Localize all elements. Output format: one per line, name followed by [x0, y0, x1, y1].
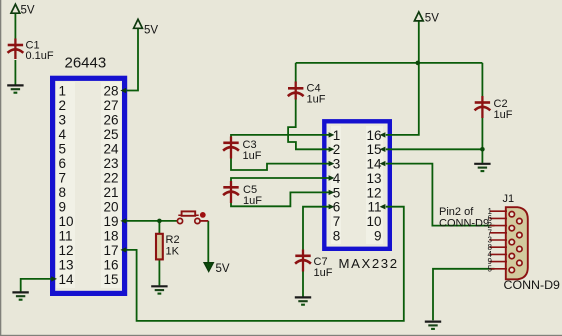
- svg-text:5V: 5V: [21, 4, 35, 16]
- capacitor C3: [223, 137, 239, 159]
- pin arrow U1 pin19: [120, 218, 126, 223]
- svg-text:3: 3: [333, 157, 341, 172]
- svg-text:8: 8: [333, 228, 341, 243]
- pin arrow U2 pin14: [380, 161, 386, 166]
- svg-text:5V: 5V: [144, 24, 158, 36]
- wire 5V rail: [296, 62, 483, 64]
- wire C7 to ground: [302, 271, 304, 297]
- svg-text:4: 4: [59, 127, 67, 142]
- svg-text:2: 2: [59, 98, 67, 113]
- svg-text:14: 14: [59, 272, 75, 287]
- svg-text:17: 17: [103, 243, 118, 258]
- ground under C7: [295, 297, 311, 304]
- svg-text:12: 12: [59, 243, 74, 258]
- U2 pin numbers left: [333, 128, 341, 244]
- power 5V down arrow: [204, 263, 213, 272]
- node junction rail 5V: [416, 61, 421, 66]
- svg-text:26: 26: [103, 112, 118, 127]
- capacitor C5: [223, 181, 239, 203]
- svg-text:1uF: 1uF: [494, 109, 513, 121]
- svg-text:CONN-D9: CONN-D9: [504, 278, 561, 292]
- svg-text:6: 6: [333, 200, 341, 215]
- svg-text:27: 27: [103, 98, 118, 113]
- wire 5V#3 to pin16: [386, 21, 419, 135]
- wire C5 to pin4: [231, 178, 331, 183]
- pin arrow U1 pin28: [120, 88, 126, 93]
- capacitor C7: [295, 250, 311, 272]
- svg-text:C3: C3: [243, 139, 257, 151]
- ground under pin14 U1: [12, 292, 28, 299]
- U1 pin numbers left: [59, 83, 75, 286]
- pin arrow U2 pin2: [329, 147, 335, 152]
- wire rail to C4: [295, 63, 297, 83]
- svg-text:3: 3: [59, 112, 67, 127]
- svg-text:C4: C4: [307, 82, 321, 94]
- svg-text:5: 5: [333, 185, 341, 200]
- svg-text:7: 7: [333, 214, 341, 229]
- svg-text:9: 9: [59, 199, 67, 214]
- svg-text:28: 28: [103, 83, 118, 98]
- wire C4 to pin2: [288, 98, 331, 149]
- pin arrow U2 pin4: [329, 175, 335, 180]
- screen bottom edge: [0, 335, 562, 336]
- button S1: [177, 211, 208, 223]
- pin arrow U1 pin17: [120, 247, 126, 252]
- svg-text:1uF: 1uF: [314, 267, 333, 279]
- wire C2 to ground: [481, 118, 483, 163]
- svg-text:1: 1: [59, 83, 67, 98]
- J1 pin numbers: [488, 207, 493, 274]
- wire pin14 MAX232 to DB9 pin2: [386, 164, 495, 226]
- svg-text:7: 7: [59, 170, 67, 185]
- svg-text:1K: 1K: [166, 246, 180, 258]
- svg-text:4: 4: [333, 171, 341, 186]
- wire pin14 U1 to ground: [21, 279, 53, 292]
- svg-text:8: 8: [59, 185, 67, 200]
- svg-text:23: 23: [103, 156, 118, 171]
- capacitor C1: [8, 39, 24, 60]
- svg-text:R2: R2: [166, 234, 180, 246]
- svg-text:25: 25: [103, 127, 118, 142]
- svg-text:22: 22: [103, 170, 118, 185]
- ground under R2: [151, 286, 167, 293]
- svg-text:18: 18: [103, 228, 118, 243]
- svg-text:5: 5: [59, 141, 67, 156]
- svg-text:10: 10: [366, 214, 381, 229]
- wire rail to C2: [481, 63, 483, 98]
- ground under C1: [7, 85, 23, 92]
- svg-text:5V: 5V: [425, 12, 439, 24]
- pin arrow U2 pin6: [329, 204, 335, 209]
- svg-text:10: 10: [59, 214, 74, 229]
- svg-text:1uF: 1uF: [243, 150, 262, 162]
- pin arrow U1 pin14: [51, 276, 57, 281]
- svg-text:20: 20: [103, 199, 118, 214]
- svg-text:MAX232: MAX232: [339, 256, 399, 271]
- svg-text:13: 13: [366, 171, 381, 186]
- svg-text:16: 16: [103, 257, 118, 272]
- svg-text:1uF: 1uF: [307, 94, 326, 106]
- svg-text:12: 12: [366, 185, 381, 200]
- svg-text:16: 16: [366, 128, 381, 143]
- wire C5 to pin5: [231, 192, 331, 206]
- svg-text:1: 1: [333, 128, 341, 143]
- wire 5V#1 to C1: [14, 13, 16, 41]
- wire R2 bottom to ground: [158, 259, 160, 285]
- svg-text:1uF: 1uF: [243, 195, 262, 207]
- resistor R2: [156, 234, 163, 260]
- svg-text:11: 11: [59, 228, 73, 243]
- svg-text:26443: 26443: [65, 55, 107, 72]
- wire pin6 to C7: [303, 207, 331, 251]
- svg-text:5: 5: [488, 264, 493, 273]
- svg-text:Pin2 of: Pin2 of: [439, 206, 474, 218]
- wire C3 to pin1: [231, 135, 331, 139]
- power 5V #3: [414, 12, 423, 21]
- pin arrow U2 pin11: [380, 204, 386, 209]
- svg-text:5V: 5V: [216, 263, 230, 275]
- ground under C2: [474, 164, 490, 171]
- op IC U2 MAX232 body: [324, 121, 390, 249]
- svg-text:0.1uF: 0.1uF: [26, 50, 54, 62]
- U1 pin numbers right: [103, 83, 119, 286]
- svg-text:24: 24: [103, 141, 119, 156]
- IC U1 26443 body: [53, 78, 125, 293]
- svg-text:19: 19: [103, 214, 118, 229]
- connector J1 CONN-D9: [490, 207, 528, 279]
- svg-text:11: 11: [367, 200, 381, 215]
- capacitor C4: [288, 82, 304, 100]
- capacitor C2: [475, 96, 491, 118]
- svg-text:21: 21: [103, 185, 118, 200]
- wire button to 5V down: [207, 221, 209, 263]
- wire C1 to ground: [14, 60, 16, 85]
- wire C3 to pin3: [231, 158, 331, 171]
- wire R2 top: [158, 221, 160, 234]
- node junction R2: [157, 219, 162, 224]
- svg-text:15: 15: [366, 142, 381, 157]
- power 5V #1: [11, 4, 20, 13]
- wire 5V#2 to pin28: [127, 29, 139, 91]
- node junction C2 ground: [480, 147, 485, 152]
- wire DB9 pin5 to ground: [433, 269, 495, 320]
- pin arrow U2 pin16: [380, 132, 386, 137]
- U2 pin numbers right: [366, 128, 382, 244]
- svg-text:J1: J1: [503, 193, 515, 205]
- wire pin15 to C2 node: [386, 148, 483, 150]
- pin arrow U2 pin1: [329, 132, 335, 137]
- svg-text:2: 2: [333, 142, 341, 157]
- wire pin19 to button: [125, 220, 178, 222]
- svg-text:14: 14: [366, 157, 382, 172]
- wire pin17 to pin11 MAX232: [125, 207, 404, 321]
- svg-text:6: 6: [59, 156, 67, 171]
- pin arrow U2 pin5: [329, 190, 335, 195]
- ground bottom right: [425, 322, 441, 329]
- pin arrow U2 pin15: [380, 147, 386, 152]
- screen left edge: [0, 0, 1, 336]
- svg-text:13: 13: [59, 257, 74, 272]
- svg-text:15: 15: [103, 272, 118, 287]
- pin arrow U2 pin3: [329, 161, 335, 166]
- svg-text:9: 9: [374, 228, 382, 243]
- svg-text:CONN-D9: CONN-D9: [439, 218, 489, 230]
- power 5V #2: [134, 19, 143, 28]
